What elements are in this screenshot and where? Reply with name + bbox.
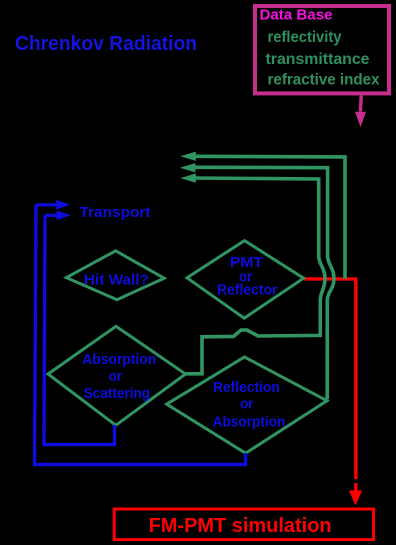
svg-text:FM-PMT simulation: FM-PMT simulation: [149, 515, 332, 537]
diamond: Hit Wall?: [66, 251, 164, 300]
arrow: red arrowhead into FM-PMT box: [349, 483, 362, 506]
wire: green bus line 1 (top, ends at red wire): [180, 152, 345, 279]
diamond: Reflection or Absorption: [167, 357, 327, 453]
svg-text:transmittance: transmittance: [266, 51, 370, 68]
arrow: transport lower (blue): [45, 211, 71, 221]
box: FM-PMT simulation: [114, 509, 373, 540]
wire: blue loop inner (from Absorption diamond bottom to transport): [44, 215, 115, 444]
svg-text:reflectivity: reflectivity: [268, 29, 342, 46]
svg-text:Transport: Transport: [80, 204, 151, 221]
svg-text:Reflection: Reflection: [213, 379, 280, 396]
svg-text:Reflector: Reflector: [217, 281, 278, 298]
wire: red link from PMT diamond to FM-PMT box: [305, 279, 356, 479]
svg-text:or: or: [240, 396, 254, 413]
arrow: transport upper (blue): [36, 200, 70, 210]
wire: green bus line 3 (to Absorption diamond right vertex, with hop bump): [180, 173, 325, 373]
svg-text:Absorption: Absorption: [82, 351, 156, 368]
wire: blue loop outer (from Reflection diamond bottom to transport): [35, 205, 246, 465]
diamond: Absorption or Scattering: [48, 326, 186, 425]
diamond: PMT or Reflector: [187, 241, 304, 319]
svg-text:or: or: [109, 368, 122, 385]
wire: green bus line 2 (to Reflection diamond right vertex): [180, 163, 334, 399]
arrow: from Data Base box down: [355, 96, 366, 128]
svg-text:Absorption: Absorption: [213, 414, 286, 431]
svg-text:Hit Wall?: Hit Wall?: [84, 272, 149, 289]
svg-text:Chrenkov Radiation: Chrenkov Radiation: [15, 33, 197, 55]
svg-text:Scattering: Scattering: [84, 385, 150, 402]
svg-text:Data Base: Data Base: [260, 7, 333, 24]
box: Data Base: [255, 6, 389, 93]
svg-text:refractive index: refractive index: [268, 72, 380, 89]
